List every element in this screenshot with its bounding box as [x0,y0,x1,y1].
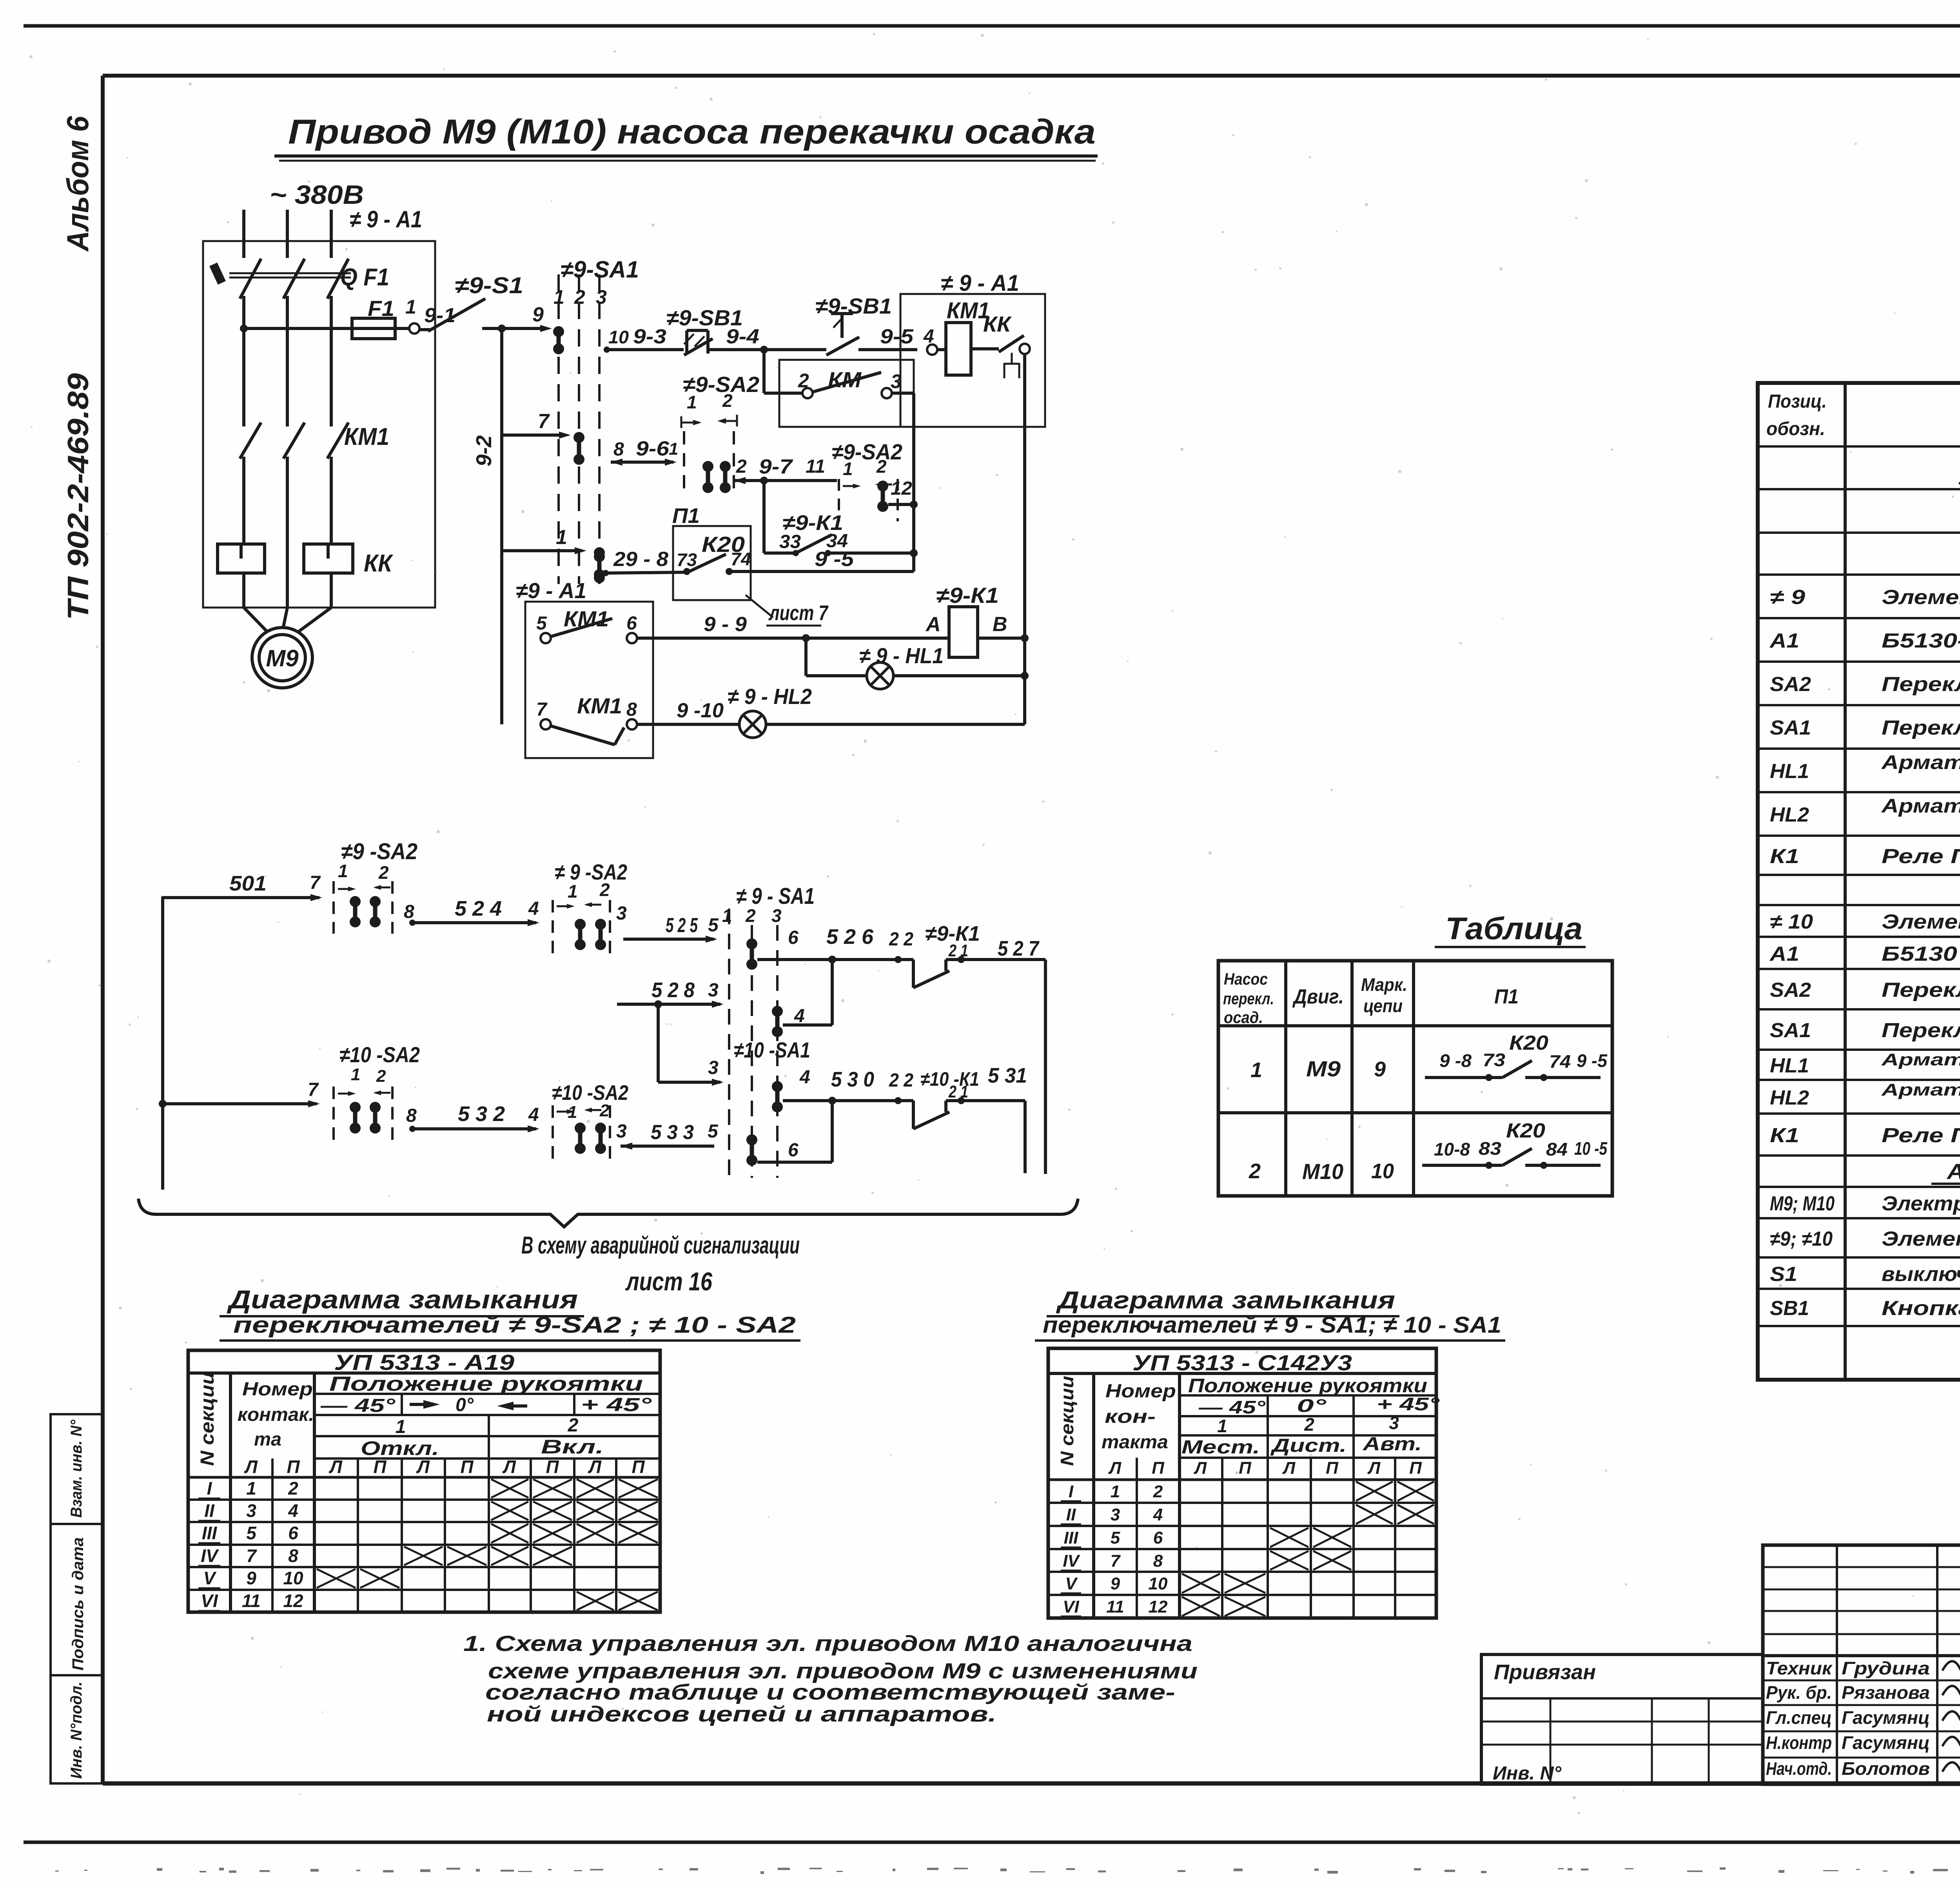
svg-text:9-3: 9-3 [633,325,666,348]
aux contacts box #9-A1 lower [525,602,653,758]
svg-text:≠9-S1: ≠9-S1 [455,273,523,298]
svg-text:Элементы упр. эл. дв. М9 ;: Элементы упр. эл. дв. М9 ; М10 [1882,1228,1960,1250]
svg-text:6: 6 [788,1140,799,1161]
svg-text:Диаграмма замыкания: Диаграмма замыкания [1056,1287,1395,1314]
svg-text:74: 74 [1549,1051,1571,1072]
svg-text:Элементы управл. эл. дв. М9: Элементы управл. эл. дв. М9 [1882,586,1960,609]
svg-text:1: 1 [1217,1416,1227,1436]
svg-text:Б5130- 3174УХЛЧ: Б5130- 3174УХЛЧ [1882,629,1960,652]
svg-text:5 2 6: 5 2 6 [826,925,874,949]
svg-text:Рук. бр.: Рук. бр. [1766,1682,1832,1703]
svg-text:11: 11 [806,456,825,477]
svg-text:2: 2 [736,456,747,477]
svg-text:3: 3 [1111,1505,1120,1524]
svg-text:7: 7 [310,873,321,893]
svg-text:+ 45°: + 45° [1377,1394,1440,1414]
wire 9-5 from 74 [732,570,914,573]
svg-text:5 3 3: 5 3 3 [651,1121,694,1144]
wire 528 jog [617,1003,720,1006]
svg-text:1: 1 [554,286,564,308]
svg-text:3: 3 [616,903,627,924]
svg-text:Л: Л [1108,1459,1122,1478]
svg-text:8: 8 [626,699,637,720]
svg-text:Переключатель УП5313- А19У3: Переключатель УП5313- А19У3 [1882,979,1960,1001]
svg-text:10 -5: 10 -5 [1574,1138,1608,1159]
svg-text:К20: К20 [1506,1119,1545,1142]
svg-text:П: П [287,1457,300,1477]
svg-text:УП 5313 - С142У3: УП 5313 - С142У3 [1132,1350,1352,1375]
svg-text:Л: Л [328,1457,343,1477]
svg-text:переключателей ≠ 9-SА2 ; ≠ 10: переключателей ≠ 9-SА2 ; ≠ 10 - SА2 [233,1312,796,1338]
disconnect switch #9-S1 [419,328,430,331]
fuse F1 and wire 9-1 [240,325,248,332]
svg-text:III: III [202,1523,218,1543]
svg-text:1: 1 [1111,1482,1120,1501]
contact SA1.2 [573,432,584,465]
svg-text:≠9-К1: ≠9-К1 [936,583,999,608]
relay panel box #9-A1 [900,294,1045,427]
svg-text:обозн.: обозн. [1766,419,1825,439]
svg-text:Л: Л [244,1457,258,1477]
svg-text:та: та [254,1429,281,1450]
svg-text:П: П [1239,1459,1252,1478]
svg-text:1: 1 [338,861,348,881]
svg-text:П1: П1 [672,504,700,528]
svg-text:П: П [632,1457,645,1477]
branch wire 1 [502,549,582,552]
svg-text:S1: S1 [1770,1263,1797,1286]
svg-text:V: V [1065,1574,1078,1593]
wire 9-9 [637,637,949,640]
svg-text:4: 4 [528,898,539,919]
svg-text:Инв. N°: Инв. N° [1493,1763,1562,1784]
svg-text:Подпись и дата: Подпись и дата [69,1537,87,1671]
left margin stamp boxes [51,1414,103,1524]
svg-text:I: I [1069,1482,1074,1501]
node 9-7 junction [760,477,768,484]
svg-text:9 -5: 9 -5 [1577,1050,1608,1071]
svg-text:Переключатель УП5313 - А19У3: Переключатель УП5313 - А19У3 [1882,673,1960,696]
svg-text:7: 7 [538,410,550,433]
svg-text:цепи: цепи [1363,996,1403,1016]
svg-text:12: 12 [1149,1597,1168,1616]
svg-text:1: 1 [351,1065,360,1084]
svg-text:10: 10 [1371,1159,1394,1183]
svg-text:Л: Л [1282,1459,1296,1478]
switch SA1 dashed columns [557,274,560,584]
svg-text:29 - 8: 29 - 8 [613,548,668,571]
closure marks table SA1 [1356,1482,1393,1501]
svg-text:Л: Л [1367,1459,1381,1478]
svg-text:Позиц.: Позиц. [1768,391,1827,412]
svg-text:SА2: SА2 [1770,979,1811,1001]
left feed line of signalling rows [163,898,319,1190]
svg-text:10: 10 [283,1568,303,1588]
svg-text:1: 1 [568,881,578,902]
svg-text:выключатель ПВ2 -10 У2.56 ис: выключатель ПВ2 -10 У2.56 испол. IV [1882,1263,1960,1286]
bus from contact KM down [912,393,915,571]
svg-text:Электродвигатель: Электродвигатель [1882,1192,1960,1215]
svg-text:1: 1 [246,1478,256,1498]
svg-text:I: I [207,1478,212,1498]
contact SA1 terminal 6 (M10) [746,1134,757,1166]
svg-text:≠9-SА1: ≠9-SА1 [561,256,639,283]
closure diagram table SA2 grid [188,1350,660,1612]
svg-text:VI: VI [201,1591,218,1611]
svg-text:Положение рукоятки: Положение рукоятки [1188,1375,1427,1397]
svg-text:Инв. N°подл.: Инв. N°подл. [68,1682,85,1779]
svg-text:9: 9 [532,303,544,326]
svg-text:≠ 9: ≠ 9 [1770,586,1805,609]
svg-text:≠9 -SА2: ≠9 -SА2 [341,839,417,864]
svg-text:Арматура АС12013У2 U ~ 220В: Арматура АС12013У2 U ~ 220В [1881,795,1960,817]
contact on SA1 col for 29-8 [594,551,605,583]
closure diagram table SA1 grid [1048,1348,1436,1618]
svg-text:— 45°: — 45° [1198,1397,1266,1417]
svg-text:Нач.отд.: Нач.отд. [1766,1758,1832,1779]
svg-text:0°: 0° [1297,1395,1327,1416]
svg-text:8: 8 [406,1105,417,1126]
svg-text:НL1: НL1 [1770,760,1809,783]
svg-text:8: 8 [1153,1551,1163,1571]
svg-text:≠10 -SА2: ≠10 -SА2 [339,1042,420,1067]
contact SA1.1 [553,326,564,354]
svg-text:1: 1 [722,905,732,926]
svg-text:2: 2 [745,905,756,926]
svg-text:≠ 9 - А1: ≠ 9 - А1 [350,206,422,232]
svg-text:5 2 7: 5 2 7 [998,937,1040,960]
svg-text:Л: Л [588,1457,602,1477]
svg-text:≠9 - А1: ≠9 - А1 [516,578,586,603]
svg-text:Положение рукоятки: Положение рукоятки [329,1373,643,1395]
svg-text:Авт.: Авт. [1363,1434,1422,1455]
svg-text:5 3 2: 5 3 2 [458,1102,505,1126]
svg-text:1: 1 [687,392,697,412]
svg-text:83: 83 [1479,1138,1501,1159]
svg-text:НL1: НL1 [1770,1054,1809,1077]
svg-text:2 1: 2 1 [948,941,968,960]
svg-text:М9: М9 [1306,1056,1341,1081]
node 9-2 vertical bus [498,325,506,332]
svg-text:4: 4 [799,1067,810,1088]
svg-text:1: 1 [843,459,853,479]
svg-text:3: 3 [1389,1413,1399,1433]
svg-text:2: 2 [876,456,887,477]
svg-text:УП 5313 - А19: УП 5313 - А19 [334,1350,514,1375]
svg-text:Откл.: Откл. [361,1437,439,1459]
svg-text:7: 7 [308,1079,319,1100]
svg-text:1: 1 [396,1417,406,1437]
svg-text:К20: К20 [1509,1032,1548,1054]
svg-text:2: 2 [599,880,610,900]
svg-text:П: П [373,1457,387,1477]
svg-text:6: 6 [1153,1528,1163,1547]
svg-text:Болотов: Болотов [1842,1758,1930,1779]
svg-text:2: 2 [568,1415,579,1436]
svg-text:5 2 5: 5 2 5 [666,914,698,937]
svg-text:Привод М9 (М10) насоса пе: Привод М9 (М10) насоса перекачки осадка [288,112,1096,151]
svg-text:осад.: осад. [1224,1008,1263,1027]
svg-text:Гл.спец: Гл.спец [1766,1707,1832,1728]
svg-text:V: V [203,1568,217,1588]
svg-text:Аппаратура по месту: Аппаратура по месту [1946,1159,1960,1184]
svg-text:73: 73 [1483,1050,1505,1070]
svg-text:2: 2 [722,390,733,411]
привязан table [1481,1654,1763,1784]
wire 9-3 [604,346,610,353]
svg-text:5: 5 [246,1523,257,1543]
svg-text:9-5: 9-5 [880,325,914,348]
svg-text:Реле ПЭ37- 22У3: Реле ПЭ37- 22У3 [1882,1124,1960,1147]
contact SA2 1-2 pair [702,461,713,493]
svg-text:8: 8 [613,439,624,460]
wire 533 [621,1143,632,1150]
svg-text:6: 6 [788,927,799,948]
svg-text:2: 2 [376,1067,386,1086]
svg-text:≠ 9 -SА2: ≠ 9 -SА2 [555,860,627,884]
svg-text:≠9-SА2: ≠9-SА2 [832,439,902,464]
svg-text:SА1: SА1 [1770,717,1811,739]
svg-text:Л: Л [1194,1459,1207,1478]
svg-text:5: 5 [536,613,547,634]
svg-text:переключателей ≠ 9 - SА1; ≠: переключателей ≠ 9 - SА1; ≠ 10 - SА1 [1043,1312,1501,1338]
aux contact KM1 5-6 [541,633,551,643]
svg-text:SВ1: SВ1 [1770,1297,1809,1320]
svg-text:К1: К1 [1770,845,1799,868]
title block stamp [1763,1545,1960,1784]
svg-text:Мест.: Мест. [1181,1437,1260,1458]
svg-text:3: 3 [596,286,607,308]
svg-text:Переключатель УП5313 -С142У3: Переключатель УП5313 -С142У3 [1882,1019,1960,1042]
svg-text:Привязан: Привязан [1494,1660,1596,1684]
svg-text:А: А [925,613,941,636]
svg-text:1. Схема управления эл. п: 1. Схема управления эл. приводом М10 ана… [463,1631,1192,1656]
svg-text:Арматура АС12011У2 U ~ 220В: Арматура АС12011У2 U ~ 220В [1881,1050,1960,1069]
brace to alarm circuit [138,1199,1078,1227]
node A1 right bus [1020,344,1030,354]
svg-text:11: 11 [1106,1597,1124,1616]
svg-text:2 2: 2 2 [889,929,913,950]
svg-text:2 2: 2 2 [889,1070,913,1091]
svg-text:Дист.: Дист. [1270,1435,1347,1456]
svg-text:НL2: НL2 [1770,1087,1809,1109]
svg-text:9: 9 [1374,1058,1386,1081]
svg-text:2: 2 [1304,1414,1314,1435]
svg-text:КМ1: КМ1 [577,693,622,718]
svg-text:9: 9 [1111,1574,1120,1593]
svg-text:3: 3 [246,1500,256,1521]
svg-text:≠9; ≠10: ≠9; ≠10 [1770,1228,1833,1250]
terminal box P1 with K20 contact [673,526,751,600]
svg-text:9 -8: 9 -8 [1439,1050,1472,1071]
svg-text:1: 1 [669,439,678,459]
svg-text:84: 84 [1546,1139,1568,1159]
svg-text:5 3 0: 5 3 0 [831,1068,874,1091]
svg-text:А1: А1 [1769,943,1799,965]
self-holding contact KM box [779,360,914,427]
svg-text:Номер: Номер [1105,1381,1176,1402]
svg-text:Арматура АС12011У2 U ~ 220В: Арматура АС12011У2 U ~ 220В [1881,751,1960,773]
svg-text:5 31: 5 31 [988,1064,1027,1087]
svg-text:Н.контр: Н.контр [1766,1732,1832,1753]
svg-text:А1: А1 [1769,629,1799,652]
svg-text:73: 73 [677,550,697,570]
svg-text:ной индексов цепей и: ной индексов цепей и аппаратов. [487,1702,996,1726]
contact SA1 terminal 6 (M9) [746,938,757,970]
svg-text:П: П [1326,1459,1339,1478]
svg-text:П1: П1 [1494,985,1519,1008]
svg-text:~ 380В: ~ 380В [270,180,364,210]
svg-text:КК: КК [983,312,1012,336]
svg-text:Гасумянц: Гасумянц [1842,1707,1930,1728]
svg-text:9-7: 9-7 [759,455,793,478]
svg-text:Переключатель УП5313 -С142У3: Переключатель УП5313 -С142У3 [1882,717,1960,739]
wire 526 and relay contact #9-K1 [757,958,913,961]
svg-text:3: 3 [771,905,782,926]
svg-text:+ 45°: + 45° [581,1395,652,1415]
svg-text:Таблица: Таблица [1445,911,1583,946]
wire to SA1 contact 9 [502,327,547,330]
svg-text:12: 12 [283,1591,303,1611]
svg-text:Вкл.: Вкл. [541,1436,604,1458]
panel box A1 (power section) [203,241,435,608]
svg-text:Рязанова: Рязанова [1842,1682,1930,1703]
svg-text:Грудина: Грудина [1842,1658,1930,1678]
svg-text:Насос: Насос [1224,970,1268,988]
svg-text:9 -10: 9 -10 [677,699,724,722]
svg-text:12: 12 [891,478,912,499]
svg-text:такта: такта [1102,1432,1168,1453]
wire 9-7 [734,477,746,484]
svg-text:9-2: 9-2 [472,435,496,466]
svg-text:≠ 9 - А1: ≠ 9 - А1 [941,270,1019,296]
svg-text:Гасумянц: Гасумянц [1842,1732,1930,1753]
svg-text:Реле ПЭ37- 22У3: Реле ПЭ37- 22У3 [1882,845,1960,868]
relay contact #9-K1 33-34 [764,551,796,555]
scanner noise bottom [55,1867,1960,1874]
svg-text:10: 10 [1149,1574,1168,1593]
svg-text:2: 2 [574,286,585,308]
svg-text:2 1: 2 1 [948,1082,968,1101]
svg-text:10-8: 10-8 [1434,1139,1470,1159]
branch wire 7 [502,434,566,437]
svg-text:III: III [1064,1528,1078,1547]
feed branch row 2 [159,1100,167,1108]
contact SA1 terminal 4 (M9) [772,1006,783,1037]
svg-text:5: 5 [708,1121,719,1142]
svg-text:6: 6 [288,1523,298,1543]
svg-text:В: В [993,613,1007,636]
thermal relay KK heater elements [218,544,265,573]
svg-text:1: 1 [1250,1058,1262,1082]
svg-text:Q F1: Q F1 [340,264,389,291]
parts list table grid [1758,383,1960,1380]
wire 9-10 [637,723,739,726]
svg-text:N секции: N секции [1057,1376,1077,1466]
wire 29-8 [603,570,609,576]
svg-text:F1: F1 [368,296,394,321]
svg-text:М9; М10: М9; М10 [1770,1192,1835,1215]
svg-text:Диаграмма замыкания: Диаграмма замыкания [227,1285,578,1314]
wire 9-6 [611,459,622,466]
svg-text:≠10 -SА1: ≠10 -SА1 [734,1038,810,1062]
svg-text:контак.: контак. [238,1404,314,1425]
svg-text:≠9-SВ1: ≠9-SВ1 [815,294,892,318]
svg-text:Л: Л [416,1457,430,1477]
contact SA1.3 [594,547,605,580]
svg-text:К1: К1 [1770,1124,1799,1147]
svg-text:5 2 4: 5 2 4 [455,897,502,920]
svg-text:4: 4 [1153,1505,1163,1524]
svg-text:М9: М9 [266,645,299,671]
svg-text:3: 3 [891,370,902,392]
svg-text:2: 2 [1249,1159,1261,1183]
aux contact KM1 7-8 NC [541,719,551,729]
svg-text:501: 501 [229,872,267,895]
svg-text:2: 2 [378,862,389,883]
svg-text:Взам. инв. N°: Взам. инв. N° [68,1419,85,1518]
svg-text:согласно таблице и: согласно таблице и соответствующей заме- [485,1680,1175,1704]
motor M9 [244,608,268,633]
svg-text:≠ 9 - НL2: ≠ 9 - НL2 [728,684,812,709]
svg-text:5: 5 [708,915,719,936]
svg-text:В схему аварийной сигнализ: В схему аварийной сигнализации [521,1232,800,1259]
svg-text:3: 3 [708,980,719,1001]
svg-text:7: 7 [536,699,548,720]
svg-text:N секции: N секции [197,1372,218,1466]
svg-text:0°: 0° [456,1395,474,1415]
svg-text:кон-: кон- [1105,1406,1156,1427]
svg-text:П: П [460,1457,474,1477]
svg-text:7: 7 [1111,1551,1121,1571]
svg-text:Альбом 6: Альбом 6 [60,116,95,252]
svg-text:2: 2 [798,370,809,392]
svg-text:3: 3 [616,1121,627,1142]
svg-text:Двиг.: Двиг. [1292,985,1344,1008]
closure marks table SA2 [491,1479,528,1498]
svg-text:9-4: 9-4 [726,325,759,348]
svg-text:8: 8 [404,902,414,922]
svg-text:II: II [1066,1505,1076,1524]
svg-text:2: 2 [288,1478,298,1498]
circuit breaker QF1 [240,259,261,299]
svg-text:лист 7: лист 7 [768,601,829,625]
table Таблица grid [1218,961,1612,1196]
svg-text:≠10 -SА2: ≠10 -SА2 [552,1081,628,1105]
svg-text:≠ 10: ≠ 10 [1770,911,1813,933]
svg-text:5 2 8: 5 2 8 [652,978,695,1002]
svg-text:НL2: НL2 [1770,804,1809,826]
svg-text:КМ1: КМ1 [344,423,389,450]
svg-text:1: 1 [405,296,416,318]
svg-text:SА1: SА1 [1770,1019,1811,1042]
lamp HL1 [804,638,808,676]
svg-text:6: 6 [626,613,637,634]
svg-text:11: 11 [242,1591,261,1611]
three phase supply lines [242,210,245,258]
svg-text:П: П [1152,1459,1165,1478]
svg-text:5: 5 [1111,1528,1120,1547]
svg-text:П: П [546,1457,559,1477]
svg-text:IV: IV [1063,1551,1080,1571]
svg-text:КК: КК [364,550,394,577]
svg-text:перекл.: перекл. [1223,989,1274,1008]
svg-text:Арматура АС12013У2 U ~ 220В: Арматура АС12013У2 U ~ 220В [1881,1080,1960,1099]
svg-text:Марк.: Марк. [1361,974,1407,995]
wire 525 [623,938,714,941]
svg-text:лист 16: лист 16 [625,1267,713,1296]
svg-text:9: 9 [246,1568,256,1588]
